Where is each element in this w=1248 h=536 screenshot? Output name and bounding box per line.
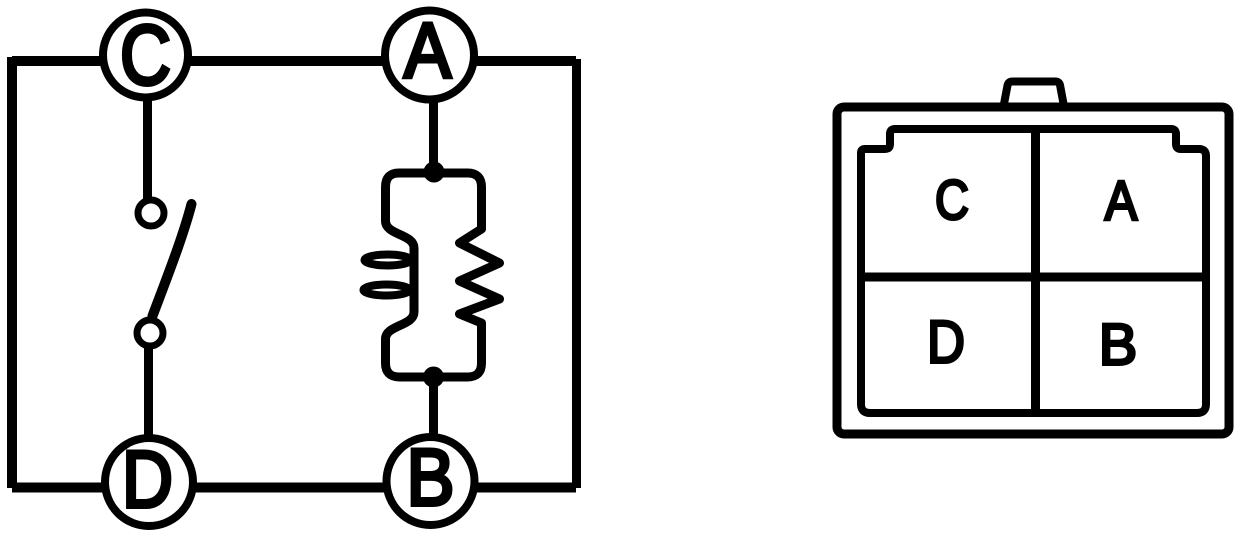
switch blade (open contact arm) [153, 204, 192, 316]
cavity label B [1099, 313, 1138, 378]
relay coil branch (left side with loops) [386, 173, 435, 377]
terminal C [103, 8, 188, 102]
svg-text:D: D [122, 435, 173, 525]
terminal A [385, 6, 474, 100]
junction dot (top of coil network) [424, 162, 445, 183]
coil loop 1 [365, 255, 411, 266]
wire: bottom rail from left corner through D and B to right corner [12, 483, 576, 493]
svg-text:D: D [927, 309, 965, 376]
cavity label D [927, 309, 965, 376]
junction dot (bottom of coil network) [423, 367, 444, 388]
svg-text:A: A [1105, 169, 1138, 232]
connector outer housing [837, 107, 1229, 434]
svg-text:C: C [120, 8, 171, 102]
svg-text:B: B [407, 433, 455, 523]
wire: terminal A down to junction [429, 98, 438, 168]
wire: junction down to terminal B [429, 377, 438, 437]
connector inner face with keyed (notched) top corners [861, 129, 1206, 413]
wire: left rail [7, 57, 17, 488]
resistor branch (right side zigzag) [434, 173, 500, 377]
wire: top rail from left corner through C and A to right corner [12, 56, 576, 66]
terminal B [387, 433, 475, 525]
connector locking tab [1003, 82, 1065, 110]
coil loop 2 [364, 285, 410, 296]
wire: switch lower contact down to terminal D [144, 346, 153, 437]
cavity label A [1105, 169, 1138, 232]
terminal D [105, 435, 193, 526]
wire: terminal C down to switch upper contact [143, 98, 152, 201]
wire: right rail [572, 59, 581, 488]
cavity divider: horizontal [863, 273, 1204, 282]
cavity divider: vertical [1031, 131, 1040, 411]
cavity label C [935, 168, 969, 231]
switch upper contact circle [138, 200, 164, 226]
svg-text:C: C [935, 168, 969, 231]
svg-text:A: A [404, 6, 451, 94]
switch lower contact circle [137, 320, 163, 346]
svg-text:B: B [1099, 313, 1138, 378]
